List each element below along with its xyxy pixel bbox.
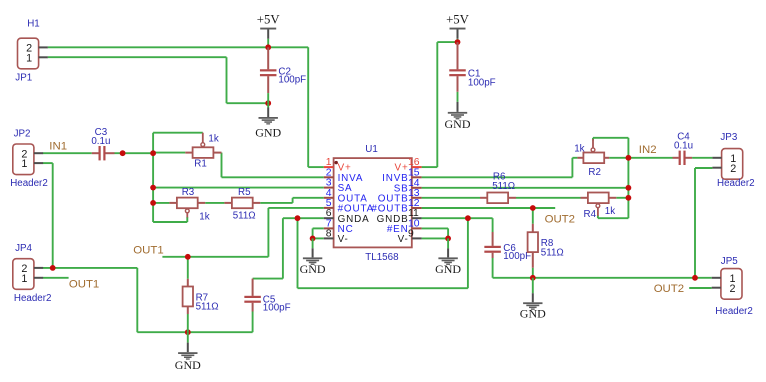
connector JP1 (H1) xyxy=(18,38,39,69)
wire U1 pin9 (V-) to GND node xyxy=(422,237,449,239)
svg-text:V-: V- xyxy=(338,234,349,245)
wire U1 pin10 (#EN) jog to pin9 node xyxy=(422,227,449,229)
wire U1 pin8 (V-) to GND node xyxy=(313,237,324,239)
svg-text:JP3: JP3 xyxy=(720,132,737,143)
U1 pin 9 stub xyxy=(412,237,422,239)
svg-text:U1: U1 xyxy=(365,144,378,155)
wire U1 pin11 (GNDB) to C6 xyxy=(422,217,493,219)
junction IN2/R2 xyxy=(626,155,632,161)
connector JP5 Header2 xyxy=(721,269,742,300)
U1 pin 8 stub xyxy=(324,237,334,239)
svg-text:100pF: 100pF xyxy=(278,75,306,86)
wire R3 wiper loop bottom xyxy=(153,221,187,223)
wire +5V node to U1 pin1 (V+) xyxy=(268,46,308,48)
svg-text:GNDB: GNDB xyxy=(377,214,409,225)
junction pin12/R8 xyxy=(530,205,536,211)
junction R7 bottom GND xyxy=(185,329,191,335)
wire JP1 pin2 to +5V/C2 node xyxy=(48,46,269,48)
wire R8 top from pin12 node xyxy=(532,208,534,224)
svg-text:R2: R2 xyxy=(588,167,601,178)
svg-text:10: 10 xyxy=(408,218,420,229)
svg-text:GND: GND xyxy=(175,358,201,372)
svg-text:511Ω: 511Ω xyxy=(233,210,256,221)
U1 pin 11 stub xyxy=(412,217,422,219)
svg-text:IN1: IN1 xyxy=(49,141,67,153)
U1 pin 6 stub xyxy=(324,217,334,219)
capacitor C5 100pF xyxy=(252,279,254,296)
U1 pin1 marker dot xyxy=(335,161,338,164)
capacitor C2 100pF xyxy=(267,47,269,69)
svg-text:Header2: Header2 xyxy=(717,178,755,189)
wire JP4 pin2 to GND row xyxy=(43,267,137,269)
svg-text:15: 15 xyxy=(408,167,420,178)
svg-text:9: 9 xyxy=(408,228,414,239)
svg-text:INVB: INVB xyxy=(382,173,408,184)
wire OUT1 row from label to pin5 column xyxy=(162,256,268,258)
svg-text:R4: R4 xyxy=(584,209,597,220)
svg-text:#EN: #EN xyxy=(387,224,409,235)
svg-text:+5V: +5V xyxy=(257,12,281,26)
U1 pin 2 stub xyxy=(324,176,334,178)
junction pin11 loop xyxy=(465,215,471,221)
svg-text:OUT1: OUT1 xyxy=(69,278,99,290)
svg-text:2: 2 xyxy=(730,163,736,175)
svg-text:Header2: Header2 xyxy=(715,306,753,317)
wire GND row under R7/C5 xyxy=(137,331,252,333)
wire R4 to node column B xyxy=(616,197,628,199)
wire U1 pin15 (INVB) to R2 left xyxy=(422,176,573,178)
wire +5V C1 node to U1 pin16 (V+) xyxy=(437,41,457,43)
wire C6 bottom lead green xyxy=(492,258,494,264)
wire C6/R8 bottom row to JP5 pin1 xyxy=(493,277,712,279)
wire R5 to U1 pin4 (OUTA) xyxy=(260,202,292,204)
wire R8 bottom green xyxy=(532,268,534,278)
svg-text:8: 8 xyxy=(326,228,332,239)
capacitor C3 0.1u xyxy=(92,152,99,154)
svg-text:1: 1 xyxy=(21,158,27,170)
junction R8 bottom GND xyxy=(530,275,536,281)
svg-text:JP1: JP1 xyxy=(15,73,32,84)
potentiometer R4 1k xyxy=(581,197,588,199)
resistor R7 511ohm xyxy=(187,279,189,287)
U1 pin 7 stub xyxy=(324,227,334,229)
svg-text:1k: 1k xyxy=(574,144,584,155)
svg-text:13: 13 xyxy=(408,188,420,199)
wire U1 pin14 (SB) to node column B xyxy=(422,187,629,189)
svg-text:12: 12 xyxy=(408,198,420,209)
svg-text:JP5: JP5 xyxy=(721,256,738,267)
wire R3 to R5 xyxy=(205,202,224,204)
junction +5V/C1 top xyxy=(455,39,461,45)
wire JP2 pin1 down to JP4 pin2 node xyxy=(43,162,53,164)
junction node A R3 xyxy=(150,200,156,206)
U1 pin 10 stub xyxy=(412,227,422,229)
capacitor C1 100pF xyxy=(457,42,459,69)
svg-text:100pF: 100pF xyxy=(263,302,291,313)
svg-text:#OUTB: #OUTB xyxy=(371,204,408,215)
wire U1 pin7 (NC) jog to pin8 node xyxy=(313,227,324,229)
potentiometer R1 1k xyxy=(185,152,192,154)
connector JP4 Header2 xyxy=(13,259,34,290)
wire pin6 junction down to bottom loop xyxy=(297,218,299,288)
potentiometer R2 1k xyxy=(577,157,583,159)
junction node A pin3 xyxy=(150,185,156,191)
svg-text:SB: SB xyxy=(394,183,409,194)
ground U1 pin9 xyxy=(447,238,449,248)
wire JP4 pin1 OUT1 stub xyxy=(43,277,69,279)
svg-text:2: 2 xyxy=(729,283,735,295)
wire node A to R1 left xyxy=(153,152,185,154)
wire U1 pin5 (#OUTA) down to OUT1 row xyxy=(268,207,323,209)
U1 pin 14 stub xyxy=(412,187,422,189)
U1 pin 15 stub xyxy=(412,176,422,178)
resistor R5 511ohm xyxy=(224,202,232,204)
wire node column A verticals xyxy=(152,133,154,222)
svg-text:0.1u: 0.1u xyxy=(674,140,693,151)
svg-text:R5: R5 xyxy=(238,187,251,198)
junction JP2/JP4 node xyxy=(50,265,56,271)
capacitor C6 100pF xyxy=(492,232,494,246)
junction JP3-JP5 column xyxy=(692,275,698,281)
wire node A to R3 xyxy=(153,202,169,204)
wire R1 wiper loop top xyxy=(153,132,203,134)
svg-text:OUT1: OUT1 xyxy=(133,244,163,256)
svg-text:511Ω: 511Ω xyxy=(196,302,219,313)
svg-text:R1: R1 xyxy=(194,159,207,170)
wire R4 wiper loop bottom xyxy=(598,217,629,219)
U1 pin 1 stub xyxy=(324,166,334,168)
svg-text:16: 16 xyxy=(408,157,420,168)
ground under R7 xyxy=(187,332,189,342)
wire pin6 branch down to C5 top jog xyxy=(282,218,284,278)
wire R2 right to IN2 node xyxy=(609,157,628,159)
wire node A to U1 pin3 (SA) xyxy=(153,187,324,189)
svg-text:IN2: IN2 xyxy=(639,144,657,156)
svg-text:OUTB: OUTB xyxy=(378,193,409,204)
svg-text:11: 11 xyxy=(408,208,419,219)
wire C4 to JP3 pin1 xyxy=(692,157,712,159)
ground U1 pin8 xyxy=(312,238,314,248)
svg-text:JP2: JP2 xyxy=(14,129,31,140)
U1 pin 13 stub xyxy=(412,197,422,199)
wire C5 bottom green xyxy=(252,312,254,333)
wire R7 top xyxy=(187,257,189,279)
svg-text:OUT2: OUT2 xyxy=(654,283,684,295)
resistor R6 511ohm xyxy=(480,197,487,199)
U1 pin 5 stub xyxy=(324,207,334,209)
wire C3 to R1 node xyxy=(115,152,154,154)
wire R1 right down to U1 pin2 (INVA) xyxy=(221,153,223,178)
svg-text:JP4: JP4 xyxy=(15,243,32,254)
svg-text:R3: R3 xyxy=(182,187,195,198)
svg-text:1: 1 xyxy=(26,52,32,64)
wire JP1 pin1 down to C2 bottom node xyxy=(48,56,227,58)
wire U1 pin6 (GNDA) branch xyxy=(283,217,324,219)
svg-text:Header2: Header2 xyxy=(14,293,52,304)
svg-text:TL1568: TL1568 xyxy=(365,252,399,263)
wire U1 pin13 (OUTB) to R6 xyxy=(422,197,480,199)
svg-text:Header2: Header2 xyxy=(10,178,48,189)
junction node A row IN1 xyxy=(150,150,156,156)
svg-text:GND: GND xyxy=(445,117,471,131)
connector JP3 Header2 xyxy=(722,149,743,180)
wire R2 wiper loop xyxy=(592,138,594,141)
junction C2 bottom xyxy=(265,100,271,106)
svg-text:V-: V- xyxy=(398,234,409,245)
svg-text:1k: 1k xyxy=(199,212,209,223)
potentiometer R3 1k xyxy=(169,202,177,204)
svg-text:1k: 1k xyxy=(208,133,218,144)
svg-text:511Ω: 511Ω xyxy=(492,181,515,192)
wire node column B vertical xyxy=(627,158,629,218)
junction pin8 GND xyxy=(310,236,316,242)
wire R6 to R4 xyxy=(516,197,581,199)
junction SB node xyxy=(626,185,632,191)
U1 pin 16 stub xyxy=(412,166,422,168)
svg-text:511Ω: 511Ω xyxy=(541,247,564,258)
wire U1 pin12 (#OUTB) / OUT2 stub xyxy=(422,207,556,209)
svg-text:GND: GND xyxy=(300,262,326,276)
junction OUTB/R4 node xyxy=(626,195,632,201)
svg-text:1: 1 xyxy=(21,273,27,285)
svg-text:14: 14 xyxy=(408,178,420,189)
ground under R8 xyxy=(532,278,534,293)
svg-text:GND: GND xyxy=(255,125,281,139)
wire OUT2 stub to JP5 pin2 xyxy=(689,287,712,289)
U1 pin 4 stub xyxy=(324,197,334,199)
junction +5V/C2 top xyxy=(265,44,271,50)
capacitor C4 0.1u xyxy=(673,157,679,159)
U1 pin 12 stub xyxy=(412,207,422,209)
svg-text:100pF: 100pF xyxy=(468,77,496,88)
wire IN2 node to C4 xyxy=(628,157,672,159)
svg-text:0.1u: 0.1u xyxy=(91,136,110,147)
junction pin9 GND xyxy=(445,236,451,242)
svg-text:GND: GND xyxy=(520,306,546,320)
resistor R8 511ohm xyxy=(532,224,534,232)
svg-text:GND: GND xyxy=(435,262,461,276)
svg-text:OUT2: OUT2 xyxy=(545,213,575,225)
svg-text:+5V: +5V xyxy=(446,12,470,26)
junction OUT1/R7 xyxy=(185,254,191,260)
svg-text:H1: H1 xyxy=(27,18,40,29)
connector JP2 Header2 xyxy=(13,144,34,175)
U1 pin 3 stub xyxy=(324,187,334,189)
junction C3 output xyxy=(120,150,126,156)
wire JP3 pin2 down to OUT2/JP5 row xyxy=(695,167,712,169)
ground under C1 xyxy=(457,92,459,102)
ground under C2 xyxy=(267,103,269,107)
op-amp U1 TL1568 body xyxy=(334,158,412,247)
wire JP2 pin2 / IN1 to C3 xyxy=(43,152,92,154)
junction pin6 GNDA xyxy=(295,215,301,221)
svg-text:V+: V+ xyxy=(395,163,409,174)
svg-text:1k: 1k xyxy=(605,206,615,217)
